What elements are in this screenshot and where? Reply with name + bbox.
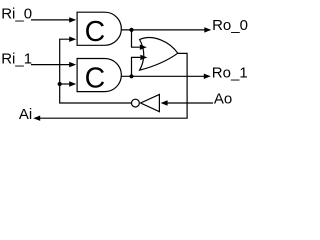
svg-text:Ri_0: Ri_0 bbox=[1, 6, 32, 23]
svg-text:Ro_1: Ro_1 bbox=[212, 65, 248, 82]
svg-text:Ai: Ai bbox=[19, 106, 32, 123]
svg-text:C: C bbox=[85, 62, 106, 94]
svg-text:Ao: Ao bbox=[214, 90, 232, 107]
svg-text:Ri_1: Ri_1 bbox=[1, 50, 32, 67]
svg-text:Ro_0: Ro_0 bbox=[212, 17, 248, 34]
svg-text:C: C bbox=[85, 16, 106, 48]
